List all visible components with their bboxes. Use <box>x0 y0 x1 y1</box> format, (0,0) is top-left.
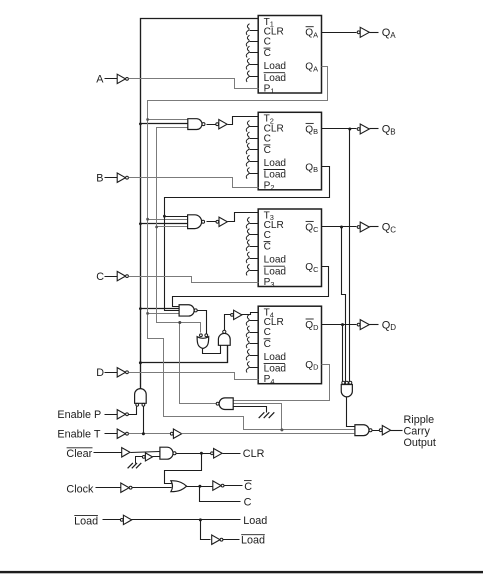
page rule at bottom <box>0 571 483 573</box>
wire Clock buffer to G12 <box>133 487 172 489</box>
svg-text:Load: Load <box>74 515 98 527</box>
wire QC-bar output to buffer <box>322 226 357 228</box>
wire clock branch to label C <box>200 487 241 502</box>
svg-text:QA: QA <box>382 27 397 40</box>
svg-text:C: C <box>264 242 271 253</box>
wire load-net tap to gate3 <box>157 226 188 228</box>
svg-text:Load: Load <box>264 158 286 169</box>
T2 CLR/C/C/Load/Load input stubs with break marks <box>246 121 258 179</box>
wire rail branch to count gate 4 <box>141 308 180 310</box>
junction QA/gate4 <box>146 312 149 315</box>
wire A to buffer <box>105 78 118 80</box>
svg-text:Load: Load <box>264 352 286 363</box>
gate G9 carry (AND pointing down, inverted inputs) <box>342 381 345 384</box>
buffer after G2 <box>216 123 219 126</box>
wire inverter to G11 <box>153 456 160 458</box>
inverter C-bar <box>213 481 221 490</box>
svg-text:Clear: Clear <box>66 448 92 460</box>
output buffer CLR <box>211 452 214 455</box>
label Ripple Carry Output <box>404 414 436 449</box>
output buffer QC <box>357 226 360 229</box>
label Load-bar <box>241 535 265 547</box>
junction rail/carry-leg <box>139 361 142 364</box>
junction ENT <box>142 432 145 435</box>
junction load-net branch <box>178 321 181 324</box>
wire QB-bar drop to carry gate <box>349 129 351 382</box>
wire Clear buffer to G11 <box>131 452 160 453</box>
wire Enable T to buffer <box>105 433 118 435</box>
wire QB-bar output to buffer <box>322 128 357 130</box>
svg-text:Clock: Clock <box>66 483 94 495</box>
wire QB feedback loop from T2 Q output <box>165 167 330 311</box>
wire buffer to Ripple Carry Output label <box>391 430 403 432</box>
gate G7 ENP-ENT (AND up, inverted inputs) <box>135 389 147 404</box>
wire buffer to T2 input <box>228 117 259 125</box>
buffer before T4 <box>231 314 234 317</box>
wire B to P2 input <box>129 178 259 188</box>
wire buffer to label QC <box>370 226 379 228</box>
inverter with grounded input <box>142 456 145 459</box>
wire QC feedback loop from T3 Q output <box>173 267 329 307</box>
label Clear (active low) <box>66 448 92 460</box>
gate G6 (AND pointing up with output bubble) <box>218 333 230 345</box>
svg-text:C: C <box>264 339 271 350</box>
junction load branch <box>199 518 202 521</box>
svg-text:D: D <box>96 367 104 379</box>
wire load-gate lower input to ground <box>234 407 267 413</box>
flip-flop box T1 <box>258 16 321 96</box>
input buffer A <box>117 74 125 83</box>
wire C to P3 input <box>129 277 259 283</box>
wire Enable T line to second buffer <box>129 433 171 435</box>
wire QC-bar drop to carry gate <box>342 227 346 382</box>
wire A to P1 input <box>129 79 259 89</box>
svg-text:CLR: CLR <box>243 448 265 460</box>
junction QD-bar <box>341 323 344 326</box>
gate G12 clock OR <box>171 481 187 492</box>
svg-text:C: C <box>264 37 271 48</box>
svg-text:Load: Load <box>264 73 286 84</box>
wire Clock to buffer <box>96 487 121 489</box>
svg-text:Carry: Carry <box>404 426 431 438</box>
junction clock branch <box>198 485 201 488</box>
svg-text:Load: Load <box>264 364 286 375</box>
gate G8 load decode (AND pointing left, output bubble) <box>219 398 233 410</box>
svg-text:Load: Load <box>241 535 265 547</box>
wire QB tap to gate3 <box>165 216 188 218</box>
wire QA tap to gate4 <box>148 313 180 315</box>
svg-text:Load: Load <box>264 266 286 277</box>
junction load-net/gate3 <box>155 226 158 229</box>
junction QA/gate2 <box>146 118 149 121</box>
svg-text:C: C <box>244 481 252 493</box>
flip-flop box T2 <box>258 112 321 192</box>
input buffer Load (inverted input) <box>120 519 123 522</box>
wire buffer to label QA <box>370 32 379 34</box>
junction QB-bar <box>348 128 351 131</box>
count gate G4 (AND) for T4 <box>179 305 194 316</box>
wire Load line to label Load <box>132 519 241 521</box>
wire G5 output to carry AND gate <box>203 346 221 354</box>
wire to label Load-bar <box>223 539 240 541</box>
wire load-gate output net to gate2/gate3/carry gates <box>157 128 217 404</box>
wire G3 bubble to buffer <box>207 221 217 223</box>
junction QC-bar <box>340 226 343 229</box>
input buffer C <box>117 271 125 280</box>
count gate G3 (AND) for T3 <box>188 215 202 229</box>
svg-text:Enable T: Enable T <box>57 429 100 441</box>
wire to label CLR <box>223 453 241 455</box>
svg-text:QC: QC <box>382 222 397 235</box>
svg-text:C: C <box>264 230 271 241</box>
svg-text:Load: Load <box>264 61 286 72</box>
wire D to buffer <box>105 372 118 374</box>
input buffer Enable T <box>117 429 125 438</box>
T1 CLR/C/C/Load/Load input stubs with break marks <box>246 24 258 82</box>
wire G10 to buffer <box>373 430 380 432</box>
gate G5 (OR, inverted inputs, pointing down) <box>200 334 203 337</box>
wire G4 bubble to lower AND gate <box>198 311 207 334</box>
svg-text:C: C <box>264 145 271 156</box>
input buffer Clock <box>121 483 129 492</box>
output buffer QB <box>357 128 360 131</box>
wire rail branch to count gate 3 <box>141 223 188 225</box>
wire buffer to T3 input <box>228 213 259 222</box>
wire QA-bar output to buffer <box>322 32 357 34</box>
wire Enable P to buffer <box>105 414 118 416</box>
svg-text:QD: QD <box>382 319 397 332</box>
wire G9 output to RCO AND <box>347 397 355 427</box>
svg-text:Load: Load <box>264 170 286 181</box>
wire D to P4 input <box>129 373 259 380</box>
ground at clear inverter <box>128 463 133 468</box>
flip-flop box T4 <box>258 306 321 386</box>
wire rail branch to carry gate leg <box>141 346 228 363</box>
svg-text:C: C <box>244 497 252 509</box>
svg-text:Enable P: Enable P <box>57 409 101 421</box>
svg-text:Ripple: Ripple <box>404 414 435 426</box>
svg-text:Load: Load <box>264 255 286 266</box>
wire ENT up to G7 <box>143 407 145 434</box>
label C-bar <box>244 481 252 494</box>
junction QB/gate3 <box>163 215 166 218</box>
count gate G2 (AND) for T2 <box>188 119 202 130</box>
wire QD feedback loop from T4 Q output to load gate <box>234 365 330 401</box>
junction QA/gate3 <box>146 218 149 221</box>
wire carry AND to buffer <box>225 315 231 331</box>
junction rail/gate4 <box>139 307 142 310</box>
svg-text:C: C <box>264 133 271 144</box>
wire QA tap to gate2 <box>148 119 188 121</box>
wire rail branch to count gate 2 <box>141 123 188 125</box>
flip-flop box T3 <box>258 209 321 289</box>
wire B to buffer <box>105 177 118 179</box>
junction tap/QA line <box>280 428 283 431</box>
wire load-net branch to lower OR gate <box>180 323 201 333</box>
wire Clear to buffer <box>94 452 122 454</box>
svg-text:C: C <box>264 48 271 59</box>
svg-text:Load: Load <box>243 515 267 527</box>
gate G10 ripple carry AND <box>355 425 369 436</box>
wire buffer to T4 input <box>242 313 259 315</box>
wire load branch to inverter <box>201 520 211 540</box>
junction rail/gate3 <box>139 222 142 225</box>
wire inverter input to ground <box>136 457 143 464</box>
wire load-gate middle input tap to QA line <box>234 404 282 430</box>
wire G11 to CLR buffer <box>176 453 211 455</box>
wire G12 to C-bar buffer <box>187 486 213 488</box>
buffer after G3 <box>216 220 219 223</box>
input buffer Enable P <box>117 410 125 419</box>
output buffer QD <box>357 323 360 326</box>
T4 CLR/C/C/Load/Load input stubs with break marks <box>246 314 258 372</box>
svg-text:C: C <box>264 327 271 338</box>
wire CLR branch down to clock OR gate <box>165 454 202 484</box>
wire Enable P buffer to G7 <box>129 407 137 415</box>
wire Load to buffer <box>103 519 121 521</box>
T3 CLR/C/C/Load/Load input stubs with break marks <box>246 217 258 275</box>
buffer Enable T repeater <box>170 432 173 435</box>
wire ENT to ripple carry gate <box>182 433 355 435</box>
wire buffer to label QD <box>370 324 379 326</box>
ground near load gate <box>259 412 265 418</box>
output buffer QA <box>357 31 360 34</box>
input buffer B <box>117 173 125 182</box>
svg-text:B: B <box>96 173 103 185</box>
wire QA feedback loop from T1 Q output <box>148 67 355 430</box>
input buffer D <box>117 368 125 377</box>
buffer RCO <box>379 429 382 432</box>
svg-text:Output: Output <box>404 437 436 449</box>
gate G11 clear NAND <box>160 447 173 459</box>
junction CLR branch <box>200 452 203 455</box>
wire C to buffer <box>105 276 118 278</box>
svg-text:A: A <box>96 74 104 86</box>
input buffer Clear <box>122 448 130 457</box>
wire QD-bar output to buffer <box>322 324 357 326</box>
wire QA tap to gate3 <box>148 219 188 221</box>
label Load (active low) <box>74 515 98 527</box>
svg-text:C: C <box>96 271 104 283</box>
junction rail/gate2 <box>139 123 142 126</box>
wire G2 bubble to buffer <box>207 124 216 126</box>
svg-text:QB: QB <box>382 124 396 137</box>
wire to label C-bar <box>225 485 243 487</box>
wire QD-bar drop to carry gate <box>342 325 344 382</box>
wire T-enable rail from ENP/ENT gate up to T1 input <box>141 19 259 389</box>
inverter Load-bar <box>212 535 220 544</box>
wire buffer to label QB <box>370 128 379 130</box>
